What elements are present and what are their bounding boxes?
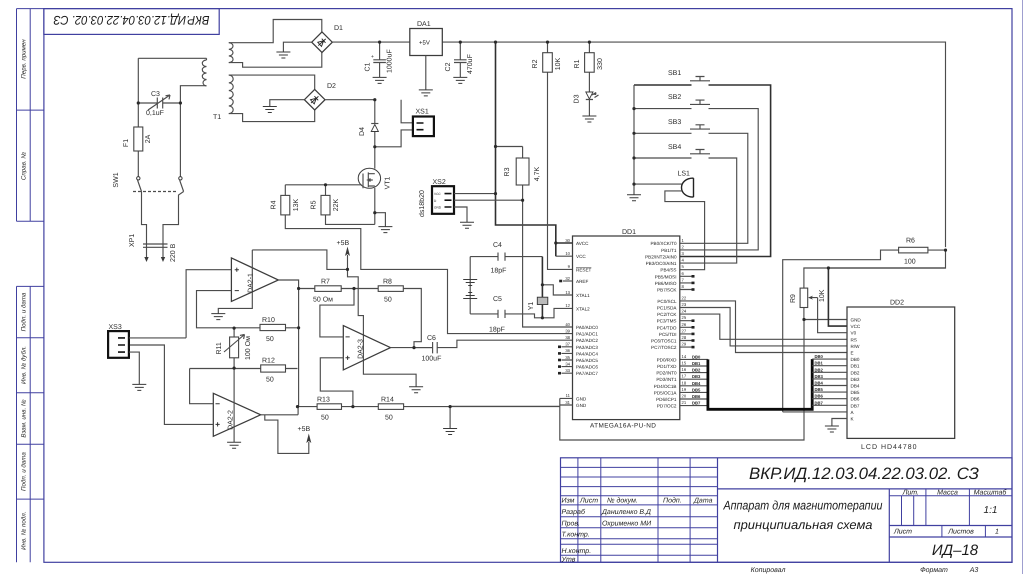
svg-text:XTAL2: XTAL2 (576, 306, 590, 311)
svg-text:28: 28 (682, 335, 687, 340)
svg-text:R4: R4 (271, 200, 278, 209)
svg-text:470uF: 470uF (467, 54, 474, 74)
svg-text:PC4/TDO: PC4/TDO (657, 325, 677, 330)
svg-text:PC7/TOSC2: PC7/TOSC2 (651, 345, 677, 350)
svg-text:ВКР.ИД.12.03.04.22.03.02. СЗ: ВКР.ИД.12.03.04.22.03.02. СЗ (53, 13, 209, 27)
svg-text:DB2: DB2 (815, 367, 824, 372)
svg-text:C2: C2 (445, 62, 452, 71)
svg-text:100uF: 100uF (422, 356, 442, 363)
svg-text:PC1/SDA: PC1/SDA (657, 306, 678, 311)
svg-text:PA5/ADC5: PA5/ADC5 (576, 358, 598, 363)
svg-text:PB1/T1: PB1/T1 (661, 248, 677, 253)
svg-text:ATMEGA16A-PU-ND: ATMEGA16A-PU-ND (590, 423, 656, 430)
svg-text:AVCC: AVCC (576, 241, 589, 246)
svg-text:Пров.: Пров. (562, 520, 581, 527)
svg-text:DB7: DB7 (692, 401, 701, 406)
svg-text:DA2-2: DA2-2 (228, 410, 235, 430)
svg-text:29: 29 (682, 342, 687, 347)
svg-text:38: 38 (565, 335, 570, 340)
svg-text:RESET: RESET (576, 267, 592, 272)
svg-text:16: 16 (682, 367, 687, 372)
svg-text:SW1: SW1 (113, 172, 120, 187)
svg-text:Аппарат для магнитотерапии: Аппарат для магнитотерапии (723, 499, 883, 513)
svg-text:PC0/SCL: PC0/SCL (657, 299, 677, 304)
svg-text:PA7/ADC7: PA7/ADC7 (576, 371, 598, 376)
svg-text:принципиальная схема: принципиальная схема (734, 518, 873, 532)
svg-text:R7: R7 (321, 279, 330, 286)
svg-text:Даниленко В.Д: Даниленко В.Д (601, 509, 651, 516)
svg-text:36: 36 (565, 348, 570, 353)
svg-text:330: 330 (597, 58, 604, 70)
svg-text:PB0/XCK/T0: PB0/XCK/T0 (650, 241, 676, 246)
svg-text:50 Ом: 50 Ом (313, 297, 333, 304)
svg-text:DB7: DB7 (815, 400, 824, 405)
svg-text:30: 30 (565, 238, 570, 243)
svg-text:Дата: Дата (693, 498, 713, 505)
svg-text:PB3/OC0/AIN1: PB3/OC0/AIN1 (646, 261, 677, 266)
svg-text:ИД–18: ИД–18 (932, 542, 979, 559)
svg-text:DA2-3: DA2-3 (358, 339, 365, 359)
svg-text:27: 27 (682, 328, 687, 333)
svg-text:R12: R12 (262, 358, 275, 365)
svg-text:C6: C6 (427, 335, 436, 342)
svg-text:C5: C5 (493, 296, 502, 303)
svg-text:XP1: XP1 (129, 234, 136, 247)
svg-text:37: 37 (565, 342, 570, 347)
svg-text:Справ. №: Справ. № (21, 152, 28, 180)
svg-text:DB1: DB1 (815, 361, 824, 366)
svg-text:PC3/TMS: PC3/TMS (657, 319, 677, 324)
svg-text:Охрименко МИ: Охрименко МИ (602, 520, 652, 527)
svg-text:R5: R5 (311, 200, 318, 209)
svg-text:DB3: DB3 (815, 374, 824, 379)
svg-text:13: 13 (565, 290, 570, 295)
svg-text:DB4: DB4 (692, 381, 701, 386)
svg-text:20: 20 (682, 394, 687, 399)
svg-text:R13: R13 (317, 397, 330, 404)
svg-text:SB3: SB3 (668, 119, 681, 126)
svg-text:100 Ом: 100 Ом (245, 336, 252, 360)
svg-text:Подп. и дата: Подп. и дата (21, 292, 28, 331)
svg-text:22: 22 (682, 295, 687, 300)
svg-text:220 В: 220 В (170, 243, 177, 262)
svg-text:PD4/OC1B: PD4/OC1B (654, 384, 677, 389)
svg-text:PB2/INT2/AIN0: PB2/INT2/AIN0 (645, 255, 677, 260)
svg-text:50: 50 (266, 336, 274, 343)
svg-text:50: 50 (266, 377, 274, 384)
svg-text:+: + (371, 54, 374, 60)
svg-text:VCC: VCC (434, 192, 441, 196)
svg-text:Т.контр.: Т.контр. (562, 531, 590, 538)
svg-text:25: 25 (682, 315, 687, 320)
svg-text:LS1: LS1 (678, 171, 691, 178)
svg-text:PC5/TDI: PC5/TDI (659, 332, 677, 337)
svg-text:XS2: XS2 (433, 179, 446, 186)
svg-text:Формат: Формат (920, 567, 948, 574)
svg-text:DB3: DB3 (692, 374, 701, 379)
svg-text:+5В: +5В (337, 240, 350, 247)
svg-text:C3: C3 (151, 91, 160, 98)
svg-text:R3: R3 (504, 167, 511, 176)
svg-text:PA0/ADC0: PA0/ADC0 (576, 325, 598, 330)
svg-text:D3: D3 (574, 94, 581, 103)
svg-text:DB6: DB6 (692, 394, 701, 399)
svg-text:DB1: DB1 (851, 364, 860, 369)
svg-text:PB5/MOSI: PB5/MOSI (655, 274, 677, 279)
svg-text:35: 35 (565, 355, 570, 360)
svg-text:F1: F1 (123, 139, 130, 147)
svg-text:18pF: 18pF (489, 327, 505, 334)
svg-text:PD2/INT0: PD2/INT0 (656, 371, 677, 376)
svg-text:R9: R9 (790, 294, 797, 303)
svg-text:Инв. № подл.: Инв. № подл. (21, 511, 28, 549)
svg-text:RS: RS (851, 337, 857, 342)
svg-text:А3: А3 (969, 567, 979, 574)
svg-text:Лит.: Лит. (902, 490, 919, 497)
svg-text:V0: V0 (851, 331, 857, 336)
svg-text:1: 1 (995, 529, 999, 536)
svg-text:22K: 22K (333, 198, 340, 211)
svg-text:10: 10 (565, 251, 570, 256)
svg-text:+5V: +5V (419, 40, 430, 47)
svg-text:19: 19 (682, 387, 687, 392)
svg-text:15: 15 (682, 361, 687, 366)
svg-text:GND: GND (576, 396, 587, 401)
svg-text:R/W: R/W (851, 344, 861, 349)
svg-text:LCD HD44780: LCD HD44780 (861, 444, 918, 451)
svg-text:50: 50 (385, 415, 393, 422)
svg-text:33: 33 (565, 368, 570, 373)
svg-text:12: 12 (565, 303, 570, 308)
svg-text:DB6: DB6 (851, 397, 860, 402)
svg-text:14: 14 (682, 354, 687, 359)
svg-text:PD0/RXD: PD0/RXD (657, 357, 678, 362)
svg-text:PD7/OC2: PD7/OC2 (657, 404, 677, 409)
svg-text:D4: D4 (359, 127, 366, 136)
svg-text:0,1uF: 0,1uF (146, 110, 164, 117)
svg-text:E: E (851, 351, 854, 356)
svg-text:PB7/SCK: PB7/SCK (657, 288, 677, 293)
svg-text:21: 21 (682, 400, 687, 405)
svg-text:GND: GND (851, 318, 862, 323)
svg-text:DB6: DB6 (815, 394, 824, 399)
svg-text:PA3/ADC3: PA3/ADC3 (576, 345, 598, 350)
svg-text:31: 31 (565, 400, 570, 405)
svg-text:GND: GND (576, 403, 587, 408)
svg-text:4,7K: 4,7K (534, 166, 541, 181)
svg-text:DD2: DD2 (890, 300, 904, 307)
svg-text:Разраб: Разраб (562, 508, 586, 516)
svg-text:DB1: DB1 (692, 361, 701, 366)
svg-text:GND: GND (434, 206, 442, 210)
svg-text:Подп. и дата: Подп. и дата (21, 452, 28, 491)
svg-text:D2: D2 (327, 83, 336, 90)
svg-text:PD6/ICP1: PD6/ICP1 (656, 397, 677, 402)
svg-text:DB2: DB2 (851, 370, 860, 375)
svg-text:C4: C4 (493, 242, 502, 249)
svg-text:XS3: XS3 (109, 324, 122, 331)
svg-text:PD3/INT1: PD3/INT1 (656, 377, 677, 382)
svg-text:R6: R6 (906, 238, 915, 245)
svg-text:26: 26 (682, 322, 687, 327)
svg-text:1:1: 1:1 (984, 505, 998, 516)
svg-text:C1: C1 (365, 62, 372, 71)
svg-text:AREF: AREF (576, 279, 588, 284)
svg-text:XS1: XS1 (416, 109, 429, 116)
svg-text:PB6/MISO: PB6/MISO (655, 281, 677, 286)
svg-text:SB4: SB4 (668, 144, 681, 151)
svg-text:DB5: DB5 (815, 387, 824, 392)
svg-text:XTAL1: XTAL1 (576, 293, 590, 298)
svg-text:PD1/TXD: PD1/TXD (657, 364, 677, 369)
svg-text:ds18b20: ds18b20 (418, 190, 426, 217)
svg-text:Изм: Изм (562, 498, 575, 505)
svg-text:23: 23 (682, 302, 687, 307)
svg-text:R10: R10 (262, 317, 275, 324)
svg-text:Инв. № дубл.: Инв. № дубл. (21, 346, 28, 384)
svg-text:PA1/ADC1: PA1/ADC1 (576, 332, 598, 337)
svg-text:Масштаб: Масштаб (974, 489, 1008, 497)
svg-text:DB4: DB4 (815, 381, 824, 386)
svg-text:DA1: DA1 (417, 21, 431, 28)
svg-text:Лист: Лист (893, 529, 912, 536)
svg-text:39: 39 (565, 328, 570, 333)
svg-text:T1: T1 (213, 114, 221, 121)
svg-text:PA4/ADC4: PA4/ADC4 (576, 351, 598, 356)
svg-text:Копировал: Копировал (751, 567, 786, 574)
svg-text:50: 50 (321, 415, 329, 422)
svg-text:VCC: VCC (851, 324, 861, 329)
svg-text:VT1: VT1 (385, 176, 392, 189)
svg-text:DB3: DB3 (851, 377, 860, 382)
svg-text:R11: R11 (216, 342, 223, 354)
svg-text:+5В: +5В (298, 426, 311, 433)
svg-text:R8: R8 (383, 279, 392, 286)
svg-text:DA2-1: DA2-1 (248, 273, 255, 293)
svg-text:ВКР.ИД.12.03.04.22.03.02. СЗ: ВКР.ИД.12.03.04.22.03.02. СЗ (749, 465, 979, 483)
svg-text:Y1: Y1 (528, 302, 535, 311)
svg-text:DB7: DB7 (851, 403, 860, 408)
svg-text:VCC: VCC (576, 254, 586, 259)
svg-text:DB4: DB4 (851, 384, 860, 389)
svg-text:2A: 2A (145, 134, 152, 143)
svg-text:DB5: DB5 (692, 387, 701, 392)
svg-text:Подп.: Подп. (663, 497, 682, 505)
svg-text:40: 40 (565, 322, 570, 327)
svg-text:DB0: DB0 (851, 357, 860, 362)
svg-text:50: 50 (384, 297, 392, 304)
svg-text:10K: 10K (555, 57, 562, 70)
svg-text:Перв. примен: Перв. примен (21, 39, 28, 79)
svg-text:17: 17 (682, 374, 687, 379)
svg-text:DB2: DB2 (692, 368, 701, 373)
svg-text:№ докум.: № докум. (607, 497, 638, 505)
svg-text:DB0: DB0 (815, 354, 824, 359)
svg-text:1000uF: 1000uF (387, 49, 394, 73)
svg-text:PB4/SS: PB4/SS (660, 268, 676, 273)
svg-text:SB1: SB1 (668, 70, 681, 77)
svg-text:R14: R14 (381, 397, 394, 404)
svg-text:13K: 13K (293, 198, 300, 211)
svg-text:PC6/TOSC1: PC6/TOSC1 (651, 339, 677, 344)
svg-text:Листов: Листов (947, 529, 974, 536)
svg-text:Утв: Утв (561, 556, 576, 563)
svg-text:Лист: Лист (579, 498, 598, 505)
svg-text:18pF: 18pF (491, 268, 507, 275)
svg-text:DD1: DD1 (622, 229, 636, 236)
svg-text:11: 11 (566, 393, 571, 398)
svg-text:Взам. инв. №: Взам. инв. № (21, 399, 28, 438)
svg-text:SB2: SB2 (668, 94, 681, 101)
svg-text:PC2/TCK: PC2/TCK (657, 312, 677, 317)
svg-text:34: 34 (565, 361, 570, 366)
svg-text:R1: R1 (574, 59, 581, 68)
svg-text:18: 18 (682, 380, 687, 385)
svg-text:PA2/ADC2: PA2/ADC2 (576, 338, 598, 343)
svg-text:PA6/ADC6: PA6/ADC6 (576, 365, 598, 370)
svg-text:PD5/OC1A: PD5/OC1A (654, 390, 678, 395)
svg-text:Н.контр.: Н.контр. (562, 548, 592, 555)
svg-text:24: 24 (682, 309, 687, 314)
svg-text:Масса: Масса (937, 490, 958, 497)
svg-text:R2: R2 (532, 59, 539, 68)
svg-text:D1: D1 (334, 25, 343, 32)
svg-text:DB0: DB0 (692, 354, 701, 359)
svg-text:DB5: DB5 (851, 390, 860, 395)
svg-text:100: 100 (904, 259, 916, 266)
svg-text:10K: 10K (819, 289, 826, 302)
svg-text:32: 32 (565, 276, 570, 281)
